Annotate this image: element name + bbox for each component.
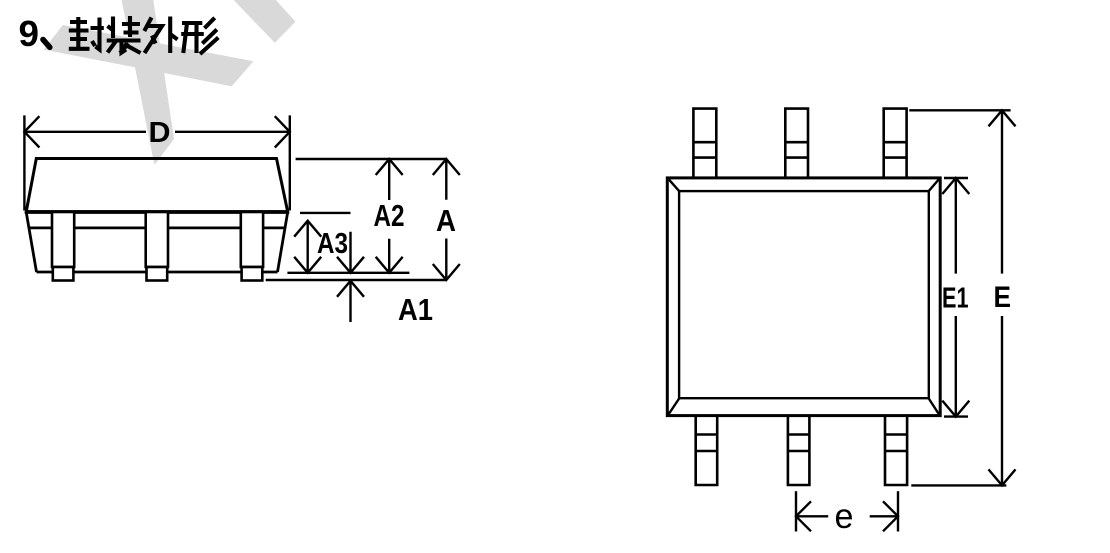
- svg-text:A2: A2: [374, 198, 405, 233]
- extension line E top: [909, 109, 1010, 111]
- pin 3 (bottom right): [885, 416, 907, 485]
- chamfer top-right: [928, 179, 939, 192]
- pin 5 (top middle): [785, 109, 808, 178]
- svg-text:A1: A1: [398, 292, 433, 327]
- dimension E1 arrow down: [942, 316, 969, 417]
- svg-text:A: A: [436, 203, 456, 238]
- extension line right: [289, 115, 291, 210]
- dimension A2 arrow down: [376, 239, 403, 273]
- dimension e arrow right: [870, 501, 898, 531]
- reference line A3 top: [300, 212, 351, 214]
- dimension A1 lower arrow: [337, 281, 364, 322]
- reference line seating plane: [266, 279, 447, 281]
- dimension A arrow down: [433, 239, 460, 281]
- title char 形: [181, 18, 218, 54]
- package lower body bottom line: [37, 271, 278, 274]
- dimension A1 upper arrow: [337, 232, 364, 273]
- svg-text:A3: A3: [317, 228, 348, 260]
- svg-text:E1: E1: [942, 283, 969, 315]
- dimension A2 arrow up: [376, 159, 403, 200]
- watermark stroke (steep strip): [122, 0, 174, 165]
- arrowhead D left: [24, 116, 39, 147]
- reference line top (A/A2): [296, 158, 447, 160]
- svg-text:9: 9: [19, 13, 40, 54]
- dimension E arrow up: [989, 110, 1016, 273]
- package lower body right slant: [278, 212, 288, 272]
- package body parting line (thick bottom edge): [25, 210, 289, 214]
- E1 tick bottom: [944, 415, 968, 417]
- dimension E arrow down: [989, 316, 1016, 485]
- lead 3 (side view): [241, 212, 263, 267]
- reference line mid (body bottom level): [287, 272, 409, 274]
- pin 2 (bottom middle): [788, 416, 810, 485]
- E1 tick top: [944, 177, 968, 179]
- watermark stroke (shallow band): [44, 25, 254, 86]
- dimension A3 double arrow: [294, 221, 321, 273]
- arrowhead D right: [275, 116, 290, 147]
- pin 6 (top left): [693, 109, 716, 178]
- package body top (trapezoid): [26, 159, 288, 212]
- extension line E bottom: [911, 484, 1006, 486]
- chamfer top-left: [669, 179, 680, 192]
- lead 1 (side view): [52, 212, 263, 281]
- dimension e arrow left: [796, 501, 828, 531]
- package lower body left slant: [26, 212, 36, 272]
- lead 2 (side view): [146, 212, 168, 267]
- dimension A arrow up: [433, 159, 460, 200]
- extension line left: [23, 115, 25, 210]
- dimension line D: [24, 131, 289, 133]
- title char 外: [144, 17, 177, 54]
- svg-text:D: D: [149, 117, 171, 149]
- pin 1 (bottom left): [696, 416, 718, 485]
- title punctuation 、: [43, 40, 50, 48]
- e tick left: [795, 491, 797, 531]
- chamfer bottom-left: [669, 398, 680, 415]
- title char 装: [107, 16, 141, 53]
- watermark stroke (top-right band): [234, 0, 296, 43]
- title char 封: [69, 17, 104, 50]
- dimension E1 arrow up: [942, 178, 969, 274]
- chamfer bottom-right: [928, 398, 939, 415]
- package lower body mid line: [29, 226, 285, 229]
- e tick right: [897, 491, 899, 531]
- pin 4 (top right): [884, 109, 907, 178]
- package inner rect: [679, 191, 929, 398]
- package outer rect: [667, 178, 940, 416]
- svg-text:E: E: [994, 281, 1012, 314]
- svg-text:e: e: [835, 497, 854, 536]
